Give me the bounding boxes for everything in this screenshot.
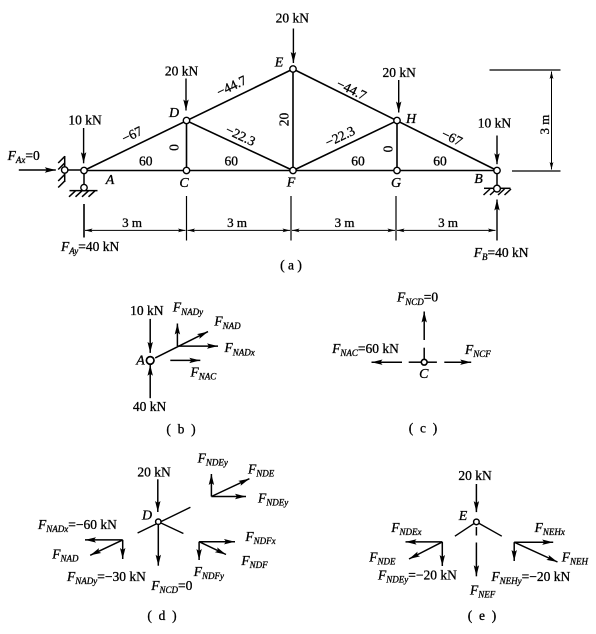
svg-text:−67: −67 (439, 126, 465, 149)
svg-text:( a ): ( a ) (280, 258, 302, 273)
svg-text:B: B (474, 172, 483, 187)
stub left at C (409, 361, 421, 363)
svg-text:60: 60 (433, 154, 447, 169)
stub D-direction at E (455, 522, 477, 536)
component arrow F_NDEy (e) (441, 542, 443, 566)
svg-text:E: E (274, 56, 284, 71)
svg-text:FNDFx: FNDFx (244, 529, 275, 546)
force arrow 40 kN (b) (149, 365, 151, 398)
force arrow 20 kN (d) (157, 479, 159, 512)
svg-text:60: 60 (224, 154, 238, 169)
load 20 kN at E (292, 29, 294, 64)
component arrow F_NADx (b) (177, 345, 218, 347)
svg-text:FNEHx: FNEHx (534, 520, 565, 537)
svg-text:FAx=0: FAx=0 (7, 148, 40, 165)
force arrow F_NEH (e) (514, 542, 557, 562)
svg-text:A: A (105, 173, 115, 188)
svg-text:A: A (135, 354, 145, 369)
node A (fbd b) (146, 357, 154, 365)
node G (394, 167, 400, 173)
force arrow F_NDE (d) (211, 479, 249, 497)
svg-text:3 m: 3 m (335, 215, 355, 230)
svg-text:20 kN: 20 kN (165, 64, 199, 79)
force arrow F_NCF at C (444, 361, 471, 363)
stub A-direction at D (138, 507, 191, 533)
load 10 kN at B (496, 136, 498, 165)
dimension line span C-F (188, 229, 291, 231)
reaction arrow F_B (496, 200, 498, 241)
svg-text:FNCF: FNCF (464, 342, 491, 359)
svg-text:D: D (141, 509, 152, 524)
load 10 kN at A (83, 128, 85, 163)
svg-text:( c ): ( c ) (409, 421, 437, 436)
node B (494, 167, 500, 173)
stub top at C (423, 348, 425, 359)
component arrow F_NDFx (d) (199, 541, 235, 543)
svg-text:( d ): ( d ) (147, 608, 176, 623)
svg-text:FNDE: FNDE (368, 550, 396, 567)
wire member E-F (292, 69, 294, 171)
node E (290, 66, 296, 72)
svg-text:FNEH: FNEH (561, 550, 589, 567)
right dimension bottom line (512, 170, 561, 172)
svg-text:20 kN: 20 kN (276, 11, 310, 26)
wire top chord E-H-B (293, 69, 497, 171)
svg-text:0: 0 (381, 145, 396, 152)
node F (290, 167, 296, 173)
node E (fbd e) (474, 519, 480, 525)
svg-text:FNEHy=−20 kN: FNEHy=−20 kN (490, 569, 570, 586)
node A (81, 167, 87, 173)
wire member F-H (293, 121, 397, 171)
svg-text:G: G (391, 176, 401, 191)
svg-text:FNAC=60 kN: FNAC=60 kN (331, 341, 399, 358)
svg-text:FNEF: FNEF (469, 583, 496, 600)
svg-text:FNCD=0: FNCD=0 (150, 578, 192, 595)
svg-text:3 m: 3 m (438, 215, 458, 230)
right dimension top line (490, 69, 561, 71)
svg-text:FNADy=−30 kN: FNADy=−30 kN (66, 569, 146, 586)
svg-text:FNAC: FNAC (190, 364, 218, 381)
svg-text:3 m: 3 m (122, 215, 142, 230)
svg-text:C: C (179, 176, 189, 191)
component arrow F_NEHy (e) (513, 542, 515, 561)
force arrow 20 kN (e) (475, 484, 477, 512)
component arrow F_NADx (d) (85, 539, 123, 541)
dimension line span F-G (292, 229, 395, 231)
stub H-direction at E (476, 522, 501, 536)
component arrow F_NADy (d) (122, 540, 124, 559)
svg-text:10 kN: 10 kN (68, 113, 102, 128)
support pin at A (wall link) (58, 156, 81, 188)
svg-text:20 kN: 20 kN (137, 465, 171, 480)
svg-text:0: 0 (167, 144, 182, 151)
force arrow F_NCD at D (157, 525, 159, 566)
svg-text:20 kN: 20 kN (458, 468, 492, 483)
svg-text:H: H (405, 112, 417, 127)
dimension witness line at G (395, 196, 397, 241)
load 20 kN at H (398, 80, 400, 113)
svg-text:60: 60 (139, 154, 153, 169)
svg-text:FNDFy: FNDFy (193, 564, 224, 581)
svg-text:−22.3: −22.3 (223, 122, 258, 149)
svg-text:10 kN: 10 kN (130, 303, 164, 318)
svg-text:FNDF: FNDF (240, 553, 268, 570)
svg-text:FAy=40 kN: FAy=40 kN (60, 239, 119, 256)
svg-text:−44.7: −44.7 (214, 72, 249, 99)
wire bottom chord A-B (84, 170, 497, 172)
svg-text:FNADx=−60 kN: FNADx=−60 kN (37, 517, 117, 534)
svg-text:20 kN: 20 kN (383, 65, 417, 80)
force arrow F_NAD (b) (155, 332, 208, 358)
force arrow F_NAC at C (372, 361, 403, 363)
node C (fbd c) (421, 359, 427, 365)
force arrow F_NAC (b) (170, 359, 200, 361)
svg-text:3 m: 3 m (537, 115, 552, 135)
svg-text:10 kN: 10 kN (478, 116, 512, 131)
force arrow F_NEF (e) (475, 543, 477, 577)
support pin at A (ground link) (69, 174, 98, 197)
node C (183, 167, 189, 173)
component arrow F_NDEx (e) (406, 541, 443, 543)
wire member C-D (186, 121, 188, 171)
roller support at B (484, 174, 512, 195)
svg-text:( e ): ( e ) (468, 608, 496, 623)
component arrow F_NDEy top (d) (210, 474, 212, 497)
svg-text:3 m: 3 m (227, 215, 247, 230)
dimension witness line at A (83, 204, 85, 238)
svg-text:FNADx: FNADx (224, 340, 255, 357)
svg-text:( b ): ( b ) (166, 422, 195, 437)
svg-text:C: C (419, 367, 429, 382)
svg-text:40 kN: 40 kN (133, 399, 167, 414)
stub below E (475, 527, 477, 536)
svg-text:FB=40 kN: FB=40 kN (473, 245, 529, 262)
svg-text:FNCD=0: FNCD=0 (396, 290, 438, 307)
force arrow F_NDE (e) (409, 542, 442, 559)
dimension line span G-B (397, 229, 496, 231)
svg-text:D: D (168, 106, 179, 121)
component arrow F_NDFy (d) (198, 542, 200, 560)
component arrow F_NEHx (e) (514, 541, 553, 543)
svg-text:FNDE: FNDE (247, 462, 275, 479)
dimension witness line at F (290, 196, 292, 241)
node H (394, 117, 400, 123)
node D (183, 117, 189, 123)
wire member D-F (187, 121, 294, 171)
force arrow F_NDF (d) (199, 542, 226, 555)
svg-text:F: F (286, 176, 296, 191)
svg-text:FNDEy: FNDEy (197, 451, 228, 468)
svg-text:−22.3: −22.3 (323, 123, 358, 150)
svg-text:−44.7: −44.7 (334, 76, 369, 103)
svg-text:FNAD: FNAD (51, 547, 79, 564)
stub F-direction at D (158, 522, 183, 534)
svg-text:20: 20 (277, 113, 292, 127)
force arrow 10 kN (b) (149, 319, 151, 353)
stub right at C (427, 361, 437, 363)
wire member G-H (396, 121, 398, 171)
svg-text:FNAD: FNAD (213, 314, 241, 331)
svg-text:FNDEx: FNDEx (390, 520, 421, 537)
force arrow F_NAD (d) (90, 540, 123, 555)
wire top chord A-D-E (84, 69, 293, 171)
svg-text:FNDEy: FNDEy (257, 491, 288, 508)
svg-text:FNDEy=−20 kN: FNDEy=−20 kN (377, 568, 457, 585)
svg-text:60: 60 (351, 154, 365, 169)
load 20 kN at D (185, 79, 187, 111)
svg-text:E: E (458, 509, 468, 524)
svg-text:FNADy: FNADy (172, 300, 203, 317)
force arrow F_NCD at C (423, 312, 425, 341)
right vertical dimension line 3 m (551, 72, 553, 170)
component arrow F_NDEx right (d) (211, 496, 246, 498)
dimension witness line at C (186, 196, 188, 241)
dimension line span A-C (85, 229, 186, 231)
component arrow F_NADy (b) (176, 324, 178, 347)
reaction arrow F_Ax (19, 169, 56, 171)
